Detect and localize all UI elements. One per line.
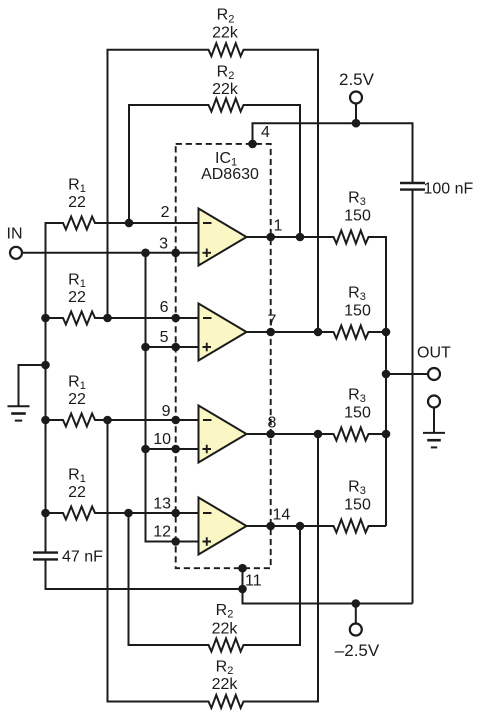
svg-text:22: 22 [68, 289, 86, 306]
svg-text:10: 10 [153, 431, 171, 448]
junction dot R1-4 left [41, 509, 50, 518]
svg-text:7: 7 [268, 312, 277, 329]
junction dot pin3 at + bus [141, 249, 150, 258]
svg-text:6: 6 [160, 299, 169, 316]
svg-text:22: 22 [68, 391, 86, 408]
capacitor C1 100 nF plates [400, 182, 425, 184]
junction dot pin9 at IC border [171, 416, 180, 425]
junction dot OUT tap [382, 370, 391, 379]
wire pin 10 [146, 448, 199, 450]
svg-text:12: 12 [153, 524, 171, 541]
svg-text:R2: R2 [217, 7, 235, 26]
op-amp U1c (amp 3) [199, 406, 247, 463]
junction dot pin5 at + bus [141, 343, 150, 352]
capacitor C2 47 nF plates [33, 551, 58, 553]
IN terminal [10, 247, 22, 259]
svg-text:150: 150 [344, 207, 371, 224]
pin 7 junction dot at IC border [266, 328, 275, 337]
junction dot pin5 at IC border [171, 343, 180, 352]
svg-text:R2: R2 [216, 602, 234, 621]
svg-text:150: 150 [344, 496, 371, 513]
wire output row amp 2 with R3 to output bus [247, 326, 387, 339]
pin 7 junction dot at feedback leg [314, 328, 323, 337]
pin 14 junction dot at feedback leg [296, 522, 305, 531]
2.5V terminal stem [355, 104, 357, 123]
pin 1 junction dot at IC border [266, 233, 275, 242]
svg-text:22k: 22k [212, 621, 239, 638]
svg-text:AD8630: AD8630 [201, 166, 259, 183]
svg-text:100 nF: 100 nF [424, 181, 474, 198]
wire OUT ground stem [433, 408, 435, 433]
svg-text:–2.5V: –2.5V [335, 641, 380, 660]
svg-text:IN: IN [7, 226, 23, 243]
svg-text:R1: R1 [68, 272, 86, 291]
svg-text:R3: R3 [348, 387, 366, 406]
wire 47nF cap to pin 11 (wire A) [46, 559, 243, 589]
junction dot pin12 at IC border [171, 537, 180, 546]
junction dot -2.5V rail [352, 599, 361, 608]
svg-text:8: 8 [268, 414, 277, 431]
wire R1 row pin 9 [46, 414, 199, 427]
svg-text:22: 22 [68, 484, 86, 501]
wire pin 11 stub down to -2.5V rail (wire B) [243, 568, 413, 603]
pin 8 junction dot at IC border [266, 430, 275, 439]
pin 4 junction dot [248, 140, 257, 149]
svg-text:R1: R1 [68, 467, 86, 486]
wire feedback loop R2 amp2 (left leg, top run, right leg to pin 7) [108, 43, 319, 332]
wire feedback loop R2 amp4 (pin13 leg down, run, right leg to pin 14) [129, 513, 301, 652]
svg-text:150: 150 [344, 404, 371, 421]
ground symbol right [423, 432, 445, 434]
junction dot R1-3 left [41, 416, 50, 425]
pin 14 junction dot at IC border [266, 522, 275, 531]
junction dot pin6 at IC border [171, 314, 180, 323]
OUT ground terminal circle [428, 396, 440, 408]
junction dot pin3 at IC border [171, 249, 180, 258]
svg-text:R3: R3 [348, 190, 366, 209]
svg-text:R3: R3 [348, 479, 366, 498]
junction dot R3-3 at output bus [382, 430, 391, 439]
wire pin4 V+ stub and +2.5V rail to bypass cap [253, 123, 413, 183]
pin 1 junction dot at feedback leg [296, 233, 305, 242]
wire OUT tap [386, 373, 428, 375]
junction dot pin10 at IC border [171, 445, 180, 454]
svg-text:9: 9 [162, 403, 171, 420]
op-amp U1b (amp 2) [199, 304, 247, 361]
wire feedback loop R2 amp3 (pin9 leg down, run, right leg to pin 8) [108, 420, 319, 708]
svg-text:13: 13 [153, 496, 171, 513]
2.5V terminal [350, 92, 362, 104]
junction dot pin 11 / wire A [238, 585, 247, 594]
wire IN to pin 3 [22, 252, 199, 254]
junction dot pin9 / R2d left leg [103, 416, 112, 425]
wire output row amp 3 with R3 to output bus [247, 428, 387, 441]
svg-text:47 nF: 47 nF [62, 549, 103, 566]
svg-text:4: 4 [261, 124, 270, 141]
IC1 dashed package outline [176, 144, 271, 568]
svg-text:22k: 22k [212, 676, 239, 693]
junction dot pin10 at + bus [141, 445, 150, 454]
svg-text:R1: R1 [68, 177, 86, 196]
wire pin 5 [146, 346, 199, 348]
pin 11 junction dot at IC border [238, 564, 247, 573]
svg-text:2.5V: 2.5V [339, 70, 375, 89]
junction dot pin6 / R2a left leg [103, 314, 112, 323]
-2.5V terminal stem [355, 604, 357, 624]
svg-text:R2: R2 [217, 64, 235, 83]
-2.5V terminal [350, 624, 362, 636]
junction dot R1-2 left [41, 314, 50, 323]
junction dot 2.5V rail [352, 119, 361, 128]
wire bypass cap bottom to -2.5V rail [412, 190, 414, 604]
wire feedback loop R2 amp1 (left leg, run, right leg to pin 1) [129, 99, 300, 238]
svg-text:5: 5 [160, 329, 169, 346]
ground symbol left [8, 405, 30, 407]
op-amp U1d (amp 4) [199, 498, 247, 555]
svg-text:R2: R2 [216, 659, 234, 678]
junction dot R3-2 at output bus [382, 328, 391, 337]
svg-text:1: 1 [274, 217, 283, 234]
svg-text:R1: R1 [68, 374, 86, 393]
svg-text:22k: 22k [212, 24, 239, 41]
wire R1 row pin 13 [46, 507, 199, 520]
svg-text:14: 14 [273, 506, 291, 523]
junction dot pin13 at IC border [171, 509, 180, 518]
junction dot ground stub [41, 361, 50, 370]
svg-text:3: 3 [159, 235, 168, 252]
svg-text:R3: R3 [348, 285, 366, 304]
wire + input bus down to pin 12 [146, 253, 199, 542]
junction dot pin13 / R2c left leg [124, 509, 133, 518]
wire ground stub from left bus [19, 365, 46, 406]
wire R1 row pin 6 [46, 312, 199, 325]
svg-text:150: 150 [344, 302, 371, 319]
svg-text:11: 11 [245, 573, 262, 590]
svg-text:2: 2 [161, 204, 170, 221]
op-amp U1a (amp 1) [199, 209, 247, 266]
junction dot pin2 / R2 left leg [125, 219, 134, 228]
wire left bus: R1 row pin2 down to 47nF cap [46, 217, 199, 553]
OUT terminal [428, 368, 440, 380]
pin 8 junction dot at feedback leg [314, 430, 323, 439]
svg-text:22: 22 [68, 194, 86, 211]
wire output row amp 4 with R3 to output bus [247, 520, 387, 533]
svg-text:OUT: OUT [417, 345, 451, 362]
wire output row amp 1 with R3 to output bus [247, 231, 387, 527]
svg-text:22k: 22k [212, 81, 239, 98]
